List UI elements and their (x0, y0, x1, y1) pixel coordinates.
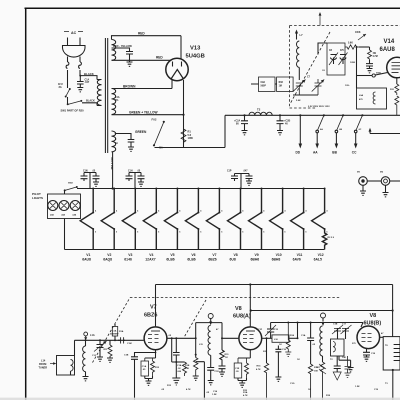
svg-text:6AV6: 6AV6 (293, 257, 301, 261)
svg-text:6AQ8: 6AQ8 (103, 257, 112, 261)
svg-text:5: 5 (116, 232, 118, 234)
svg-text:6BH6: 6BH6 (251, 257, 260, 261)
svg-text:4: 4 (179, 210, 181, 213)
svg-text:6LB6: 6LB6 (166, 257, 174, 261)
svg-text:4: 4 (137, 210, 139, 213)
svg-text:5: 5 (305, 232, 307, 234)
svg-text:6BZ6: 6BZ6 (208, 257, 216, 261)
svg-text:6146: 6146 (124, 257, 132, 261)
svg-text:5: 5 (158, 232, 160, 234)
svg-text:12AX7: 12AX7 (145, 257, 155, 261)
svg-text:4: 4 (326, 210, 328, 213)
svg-text:4: 4 (116, 210, 118, 213)
svg-text:R2 3.9: R2 3.9 (328, 237, 335, 239)
svg-text:4: 4 (95, 210, 97, 213)
svg-text:5: 5 (137, 232, 139, 234)
svg-text:5: 5 (284, 232, 286, 234)
svg-text:5: 5 (95, 232, 97, 234)
svg-text:4: 4 (305, 210, 307, 213)
svg-text:6AL5: 6AL5 (314, 257, 322, 261)
svg-text:6U8: 6U8 (230, 257, 236, 261)
svg-text:4: 4 (263, 210, 265, 213)
svg-text:5: 5 (179, 232, 181, 234)
svg-text:4: 4 (242, 210, 244, 213)
svg-text:5: 5 (221, 232, 223, 234)
svg-text:5: 5 (326, 232, 328, 234)
svg-text:4: 4 (200, 210, 202, 213)
svg-text:5: 5 (263, 232, 265, 234)
svg-text:4: 4 (158, 210, 160, 213)
svg-text:4: 4 (284, 210, 286, 213)
svg-text:6AU8: 6AU8 (82, 257, 91, 261)
svg-text:4: 4 (221, 210, 223, 213)
svg-text:5: 5 (242, 232, 244, 234)
svg-text:6BH8: 6BH8 (272, 257, 281, 261)
svg-text:6LB6: 6LB6 (187, 257, 195, 261)
svg-text:5: 5 (200, 232, 202, 234)
